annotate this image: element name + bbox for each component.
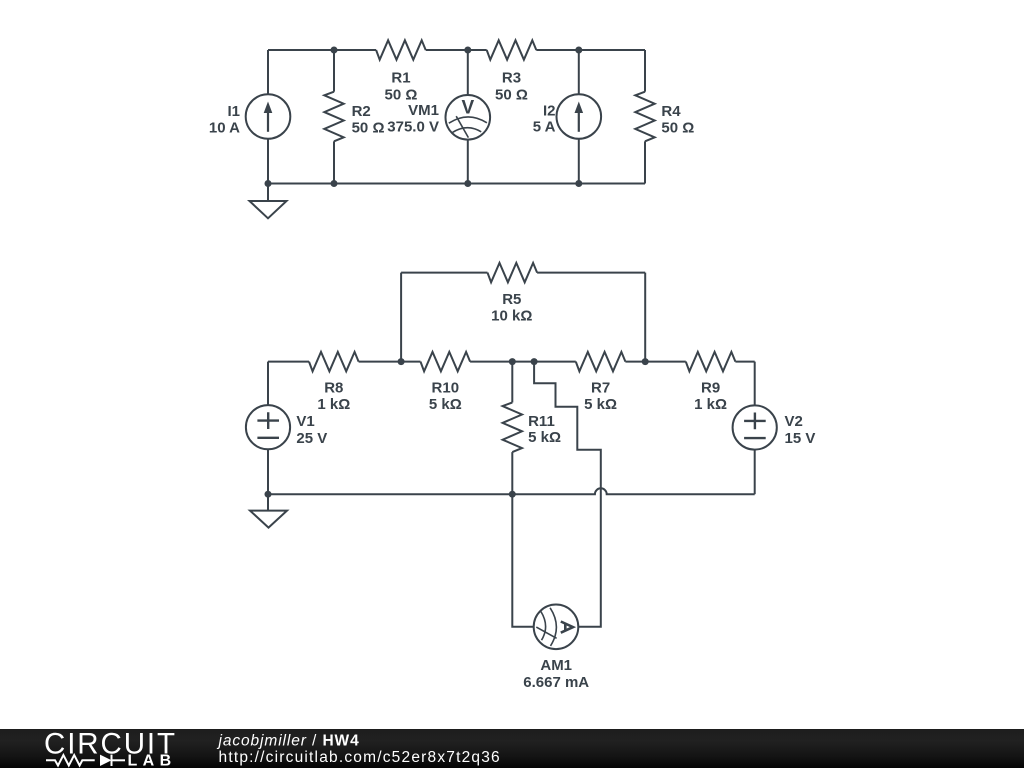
svg-text:I2: I2 — [543, 102, 556, 119]
svg-text:jacobjmiller / HW4: jacobjmiller / HW4 — [217, 733, 360, 750]
resistor R1 — [376, 40, 426, 59]
wire I1 bottom — [267, 139, 269, 184]
wire I2 bottom — [578, 139, 580, 184]
voltmeter VM1 — [446, 95, 491, 140]
wire bottom rail top circuit — [268, 183, 645, 185]
svg-text:LAB: LAB — [128, 753, 177, 768]
svg-text:R4: R4 — [661, 103, 681, 120]
current source I1 — [246, 94, 291, 139]
node dot stair — [531, 358, 538, 365]
wire R11 top — [511, 362, 513, 403]
current source I2 — [557, 94, 602, 139]
node dot R11 bottom — [509, 491, 516, 498]
svg-text:AM1: AM1 — [540, 657, 572, 674]
ammeter needle — [536, 627, 556, 638]
node dot R2 top — [331, 47, 338, 54]
svg-text:1 kΩ: 1 kΩ — [694, 396, 727, 413]
node dot R5 right junction — [642, 358, 649, 365]
node dot ground rail V1 — [265, 491, 272, 498]
svg-text:V2: V2 — [785, 413, 803, 430]
node dot R5/R8/R10 junction — [398, 358, 405, 365]
svg-text:VM1: VM1 — [408, 102, 439, 119]
wire ammeter left leg — [512, 494, 533, 627]
node dot VM1 bottom — [464, 180, 471, 187]
wire I1 top — [267, 50, 269, 94]
svg-text:1 kΩ: 1 kΩ — [317, 396, 350, 413]
svg-text:http://circuitlab.com/c52er8x7: http://circuitlab.com/c52er8x7t2q36 — [219, 749, 501, 766]
wire R11 bottom — [511, 452, 513, 494]
svg-text:10 kΩ: 10 kΩ — [491, 308, 532, 325]
svg-text:50 Ω: 50 Ω — [352, 120, 385, 137]
svg-text:R9: R9 — [701, 379, 720, 396]
ammeter AM1 — [534, 605, 579, 650]
svg-text:50 Ω: 50 Ω — [495, 86, 528, 103]
svg-text:50 Ω: 50 Ω — [385, 86, 418, 103]
wire VM1 top — [467, 50, 469, 95]
node dot I2 bottom — [575, 180, 582, 187]
svg-text:6.667 mA: 6.667 mA — [523, 674, 589, 691]
node dot I2 top — [575, 47, 582, 54]
svg-text:R10: R10 — [432, 379, 460, 396]
resistor R11 — [503, 403, 522, 453]
svg-text:10 A: 10 A — [209, 120, 240, 137]
svg-text:R3: R3 — [502, 70, 521, 87]
resistor R4 — [635, 92, 654, 142]
voltage source V1 — [246, 405, 290, 449]
wire R5 right leg — [644, 273, 646, 362]
wire top rail middle — [426, 49, 487, 51]
resistor R7 — [576, 352, 626, 371]
wire R2 bottom — [333, 141, 335, 183]
svg-text:V1: V1 — [296, 413, 314, 430]
svg-text:5 kΩ: 5 kΩ — [429, 396, 462, 413]
wire R2 top — [333, 50, 335, 92]
svg-text:R11: R11 — [528, 413, 555, 430]
logo resistor-diode glyph — [46, 755, 125, 766]
node dot R11 top — [509, 358, 516, 365]
wire VM1 bottom — [467, 140, 469, 184]
resistor R10 — [421, 352, 471, 371]
ground bottom circuit — [267, 494, 269, 510]
footer bar — [0, 729, 1024, 768]
voltage source V2 — [733, 405, 777, 449]
wire R5 left leg — [400, 273, 402, 362]
wire R4 bottom — [644, 141, 646, 183]
wire V2 bottom — [754, 450, 756, 495]
node dot R2 bottom — [331, 180, 338, 187]
svg-text:R8: R8 — [324, 379, 343, 396]
wire top rail right — [536, 49, 645, 51]
svg-text:25 V: 25 V — [296, 430, 327, 447]
svg-text:5 kΩ: 5 kΩ — [584, 396, 617, 413]
svg-text:I1: I1 — [227, 103, 240, 120]
wire bottom rail with hop — [268, 488, 755, 494]
node dot VM1 top — [464, 47, 471, 54]
svg-text:V: V — [461, 98, 474, 119]
svg-text:R5: R5 — [502, 291, 521, 308]
wire stair from node to ammeter right leg — [534, 362, 601, 627]
node dot I1 bottom — [265, 180, 272, 187]
svg-text:R2: R2 — [352, 103, 371, 120]
ground top circuit — [267, 184, 269, 202]
ammeter letter A (rotated) — [561, 622, 573, 633]
resistor R8 — [309, 352, 359, 371]
wire I2 top — [578, 50, 580, 94]
wire top rail left — [268, 49, 376, 51]
wire R5 top left — [401, 272, 487, 274]
wire V1 top — [267, 362, 269, 406]
wire main rail bottom circuit — [268, 361, 309, 363]
svg-text:50 Ω: 50 Ω — [661, 120, 694, 137]
resistor R9 — [686, 352, 736, 371]
wire R4 top — [644, 50, 646, 92]
svg-text:R1: R1 — [391, 70, 410, 87]
svg-text:15 V: 15 V — [785, 430, 816, 447]
svg-text:R7: R7 — [591, 379, 610, 396]
wire V2 top — [754, 362, 756, 406]
wire R5 top right — [537, 272, 645, 274]
resistor R2 — [324, 92, 343, 142]
svg-text:5 kΩ: 5 kΩ — [528, 429, 561, 446]
wire V1 bottom — [267, 449, 269, 494]
svg-text:5 A: 5 A — [533, 118, 556, 135]
svg-text:375.0 V: 375.0 V — [387, 119, 439, 136]
resistor R5 — [488, 263, 538, 282]
resistor R3 — [487, 40, 537, 59]
